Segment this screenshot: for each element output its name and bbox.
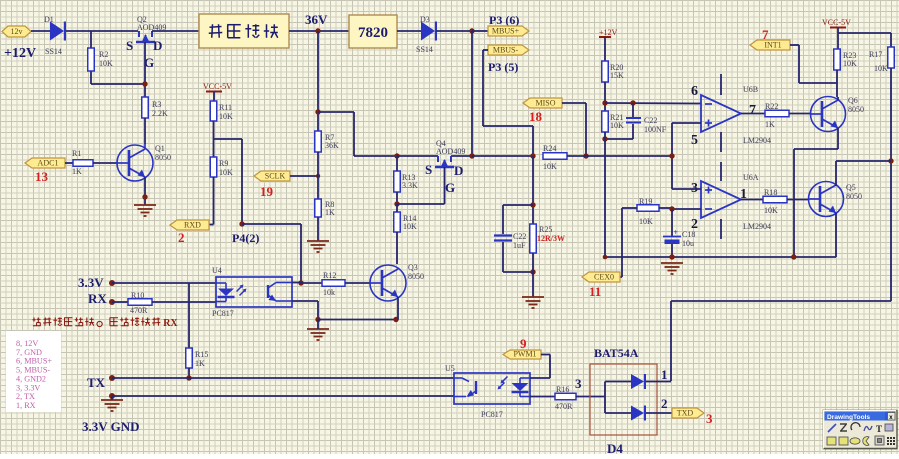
wire VCC to R17 [838,33,891,47]
transistor Q3 8050 [370,263,424,301]
svg-text:470R: 470R [555,402,573,411]
svg-text:+: + [674,228,679,237]
svg-text:TXD: TXD [677,409,694,418]
junction input node [669,153,674,158]
junction U4 collector node [298,280,303,285]
wire U6A pin3 [672,188,701,190]
svg-text:6: 6 [691,84,698,99]
power VCC-5V top right [822,18,851,49]
wire Q5 collector [836,161,891,186]
wire U6A out to R18 [741,199,763,201]
svg-text:19: 19 [260,184,274,199]
node RX [109,299,115,305]
wire 36V rail down [317,31,319,131]
junction R21 bottom [602,136,607,141]
svg-text:5: 5 [691,133,698,148]
svg-text:G: G [445,180,455,195]
junction Q4 drain node [469,153,474,158]
svg-text:U4: U4 [212,266,222,275]
junction 36V node [315,28,320,33]
junction R13 bottom [394,201,399,206]
transistor Q5 8050 [808,182,862,217]
junction R24 left [530,153,535,158]
junction R24 right [583,153,588,158]
svg-text:3, 3.3V: 3, 3.3V [16,383,40,392]
svg-text:18: 18 [529,109,543,124]
wire MBUS+ node down to Q4 drain [471,31,473,156]
svg-text:Q3: Q3 [408,263,418,272]
svg-text:D1: D1 [44,15,54,24]
diode D3 SS14 [416,15,436,54]
wire C22 top lead [632,103,634,117]
junction C22 100NF top [630,100,635,105]
wire rail to gnd bus [604,132,606,257]
resistor R12 10k [322,271,345,297]
label 3.3V [78,275,104,290]
svg-text:1, RX: 1, RX [16,401,36,410]
wire GND to U5 [112,395,454,397]
transistor Q1 8050 [117,144,171,181]
svg-text:1K: 1K [765,120,775,129]
wire RX to R10 [112,301,128,303]
svg-text:10K: 10K [764,206,778,215]
wire R14 to Q3 collector [396,204,398,264]
svg-text:MISO: MISO [535,99,555,108]
svg-text:3.3V: 3.3V [78,275,104,290]
label P3 (5) [488,60,518,74]
svg-text:S: S [425,162,432,177]
wire U6A pin2 [672,208,701,210]
svg-text:+12V: +12V [4,46,36,61]
block 7820 regulator [349,15,397,48]
svg-text:7: 7 [749,103,756,118]
svg-text:VCC-5V: VCC-5V [822,18,851,27]
svg-text:10u: 10u [682,239,694,248]
junction SCLK node [316,174,320,178]
junction R15 TX [186,375,191,380]
svg-text:7, GND: 7, GND [16,348,42,357]
svg-text:U5: U5 [445,364,455,373]
junction Q5 collector [888,158,893,163]
label P4(2) [232,231,259,245]
port INT1 [750,40,790,50]
svg-text:S: S [126,38,133,53]
wire D3 to MBUS+ [436,30,472,32]
svg-text:RX: RX [163,318,178,329]
svg-text:2.2K: 2.2K [152,109,168,118]
wire MBUS- down to R24 node [483,50,533,156]
resistor R23 10K [834,49,857,70]
svg-text:1K: 1K [195,359,205,368]
wire C18 to bus [671,244,673,257]
wire U6B pin5 [672,122,701,124]
wire U4 collector to R12 [292,282,322,285]
svg-text:DrawingTools: DrawingTools [827,414,870,421]
svg-text:T: T [876,424,882,434]
junction C22 top [530,202,535,207]
pin number 19 [260,184,274,199]
port 12v [2,26,31,37]
svg-text:10K: 10K [543,162,557,171]
wire R19 to CEX0 [620,208,637,277]
svg-text:3: 3 [706,411,713,426]
capacitor C22 100NF [626,116,667,134]
svg-text:TX: TX [87,375,106,390]
svg-text:R17: R17 [869,50,882,59]
resistor R7 36K [315,131,339,152]
capacitor C22 1uF [494,232,526,250]
wire R15 bottom [188,368,190,378]
svg-text:R1: R1 [72,149,81,158]
resistor R8 1K [315,199,335,217]
resistor R24 10K [543,144,567,171]
pin number 18 [529,109,543,124]
junction R13 top [394,153,399,158]
svg-text:D4: D4 [607,441,623,454]
svg-text:3.3K: 3.3K [402,181,418,190]
resistor R16 470R [555,385,576,411]
junction U4 emitter gnd [315,317,320,322]
ground Q1 [134,205,156,216]
svg-text:C22: C22 [513,232,526,241]
pin number 7 [762,27,769,42]
text master-slave note [32,317,178,329]
svg-text:RX: RX [88,291,107,306]
wire R25 to ground [532,253,534,297]
optocoupler U5 PC817 [445,364,530,419]
svg-text:10K: 10K [874,64,888,73]
wire R11 to R9 [213,121,215,157]
diode D1 SS14 [44,15,65,56]
pin number 2 [178,230,185,245]
resistor R9 10K [210,157,233,177]
junction P4(2) node [239,221,244,226]
wire Q1 emitter to ground [144,177,146,205]
svg-text:ADC1: ADC1 [38,159,59,168]
wire Q5 emitter to bus [835,213,837,257]
svg-text:1: 1 [661,367,668,382]
svg-text:U6A: U6A [743,173,759,182]
resistor R22 1K [765,102,789,129]
svg-text:Q1: Q1 [155,144,165,153]
resistor R1 1K [72,149,93,176]
label P3 (6) [489,13,519,27]
svg-text:10K: 10K [219,112,233,121]
window DrawingTools toolbar [823,410,898,449]
wire C22 bottom lead [605,124,633,139]
svg-text:10K: 10K [219,168,233,177]
wire R12 to Q3 base [345,282,370,284]
wire input node vertical [671,123,673,189]
svg-text:INT1: INT1 [764,41,781,50]
svg-text:4, GND2: 4, GND2 [16,374,46,383]
resistor R13 3.3K [394,171,418,192]
svg-text:12v: 12v [11,27,23,36]
text pin list legend [6,331,61,412]
op-amp U6B LM2904 [691,74,771,152]
transistor Q6 8050 [810,96,864,132]
junction R25 bottom [530,269,535,274]
svg-text:36V: 36V [305,12,328,27]
resistor R25 12R/3W [530,224,565,253]
label TX [87,375,106,390]
wire TX to U5 [112,377,454,379]
svg-text:8050: 8050 [848,105,864,114]
wire ground bus [605,256,836,258]
node GND2 [109,393,115,399]
svg-text:AOD409: AOD409 [436,147,465,156]
svg-text:P3 (5): P3 (5) [488,60,518,74]
port SCLK [254,171,290,181]
resistor R19 10K [637,197,659,226]
wire gnd stub [111,396,113,400]
capacitor C18 10u electrolytic [663,209,695,248]
wire gnd to Q3 emitter [318,320,396,330]
label 36V [305,12,328,27]
svg-text:SCLK: SCLK [265,172,286,181]
svg-text:10K: 10K [403,222,417,231]
svg-text:15K: 15K [610,71,624,80]
wire R7 to R8 [317,152,319,199]
label RX [88,291,107,306]
port MISO [523,98,562,108]
wire R1 to Q1 base [93,162,117,164]
wire Q5 rail to BAT54A pin1 [671,301,891,381]
pin number 11 [589,284,601,299]
svg-text:R15: R15 [195,350,208,359]
svg-text:P4(2): P4(2) [232,231,259,245]
wire to MBUS+ port [472,30,488,32]
resistor R18 10K [763,188,787,215]
svg-text:R25: R25 [539,225,552,234]
junction bus left [603,255,608,260]
svg-text:SS14: SS14 [45,47,62,56]
svg-text:PC817: PC817 [481,410,503,419]
svg-text:8050: 8050 [155,153,171,162]
svg-text:10K: 10K [99,59,113,68]
wire down to R25 [532,156,534,224]
wire R20 to R21 [604,82,606,111]
svg-text:1uF: 1uF [513,241,526,250]
wire R16 to BAT54A pin3 [576,396,605,398]
wire R17 rail down [890,68,892,301]
wire R2 branch [91,31,145,84]
wire PWM1 to U5 [530,355,550,379]
wire MISO down [562,103,586,156]
svg-text:5, MBUS-: 5, MBUS- [16,366,50,375]
resistor R10 470R [128,291,152,315]
svg-text:10K: 10K [843,59,857,68]
svg-text:D: D [454,163,463,178]
junction C18 bus [669,254,674,259]
ground R25 [522,297,544,308]
svg-text:100NF: 100NF [644,125,667,134]
resistor R21 10K [602,111,624,132]
wire boost to 7820 [289,30,349,32]
wire R19 to pin2 node [659,207,672,209]
pin number 13 [35,169,49,184]
svg-text:C22: C22 [644,116,657,125]
wire R23 to Q6 collector [836,70,838,97]
wire R24 to comparator input [567,155,672,157]
svg-text:8050: 8050 [408,272,424,281]
svg-text:LM2904: LM2904 [743,222,771,231]
wire R15 top [188,283,190,348]
node TX [109,375,115,381]
wire Q2 drain to boost module [152,30,199,32]
svg-text:12R/3W: 12R/3W [537,234,565,243]
svg-text:2, TX: 2, TX [16,392,35,401]
port TXD [672,408,704,418]
power +12V rail [599,28,618,61]
power VCC-5V rail [203,82,232,101]
svg-text:D: D [153,38,162,53]
svg-text:R2: R2 [99,50,108,59]
svg-text:CEX0: CEX0 [594,273,614,282]
wire R3 to Q1 collector [144,118,146,144]
svg-text:36K: 36K [325,141,339,150]
junction R20/R21 [602,100,607,105]
block boost module [199,14,289,48]
svg-text:PWM1: PWM1 [513,350,536,359]
port ADC1 [25,158,65,168]
resistor R14 10K [394,212,417,232]
op-amp U6A LM2904 [691,162,771,239]
wire node to P4(2) branch [214,139,243,224]
label +12V [4,46,36,61]
svg-text:MBUS+: MBUS+ [492,27,520,36]
port MBUS+ [488,26,529,36]
svg-text:2: 2 [661,396,668,411]
optocoupler U4 PC817 [212,266,292,318]
svg-text:3: 3 [575,376,582,391]
label 3.3V GND [82,419,140,434]
wire to U6B pin6 [605,102,701,105]
wire U5 to R16 [530,396,555,398]
svg-text:C18: C18 [682,230,695,239]
node 3.3V [109,280,115,286]
port MBUS- [488,45,529,55]
wire INT1 to Q6 collector [790,45,837,83]
svg-text:1K: 1K [325,208,335,217]
svg-text:Q5: Q5 [846,183,856,192]
svg-text:LM2904: LM2904 [743,136,771,145]
junction Q6 emitter bus [791,254,796,259]
svg-text:8050: 8050 [846,192,862,201]
svg-text:470R: 470R [130,306,148,315]
svg-text:R9: R9 [219,159,228,168]
svg-text:BAT54A: BAT54A [594,346,639,360]
wire Q2 gate to R3 [144,42,146,98]
junction Q1 emitter [142,194,147,199]
svg-text:VCC-5V: VCC-5V [203,82,232,91]
svg-text:R12: R12 [323,271,336,280]
resistor R17 10K [869,47,894,73]
port PWM1 [503,350,541,359]
wire U6B out to R22 [741,113,765,115]
svg-text:6, MBUS+: 6, MBUS+ [16,357,52,366]
svg-text:10k: 10k [323,288,335,297]
resistor R11 10K [210,101,233,121]
wire ADC1 to R1 [65,162,73,164]
wire 12v to D1 to Q2 [31,30,138,32]
svg-text:RXD: RXD [184,221,201,230]
wire 3.3V to U4 [112,282,216,284]
ground C18 [661,263,683,274]
diode array D4 BAT54A [590,346,672,456]
svg-text:8, 12V: 8, 12V [16,339,38,348]
pin number 3 [706,411,713,426]
junction Q3 emitter [393,317,398,322]
svg-text:P3 (6): P3 (6) [489,13,519,27]
svg-text:Q6: Q6 [848,96,858,105]
wire R9 to RXD [209,177,214,225]
resistor R3 2.2K [142,97,168,118]
ground 3.3V GND [101,400,123,411]
svg-text:R11: R11 [219,103,232,112]
ground U4 [307,329,329,340]
resistor R20 15K [602,61,624,82]
svg-text:13: 13 [35,169,49,184]
svg-text:MBUS-: MBUS- [493,46,519,55]
svg-text:10K: 10K [610,121,624,130]
svg-text:U6B: U6B [743,85,758,94]
svg-text:11: 11 [589,284,601,299]
ground R8 [307,241,329,252]
wire Q4 drain to R24 [472,155,533,157]
wire Q3 emitter down [397,297,399,320]
junction MBUS+ node [469,28,474,33]
wire U4 emitter to ground [292,301,318,319]
wire R10 to U4 [152,301,216,303]
svg-text:10K: 10K [639,217,653,226]
svg-text:+12V: +12V [599,28,618,37]
wire P4(2) to U4 collector [242,224,301,283]
resistor R2 10K [88,48,113,71]
transistor Q2 AOD409 PMOS [126,15,166,70]
wire R22 to Q6 base [789,113,810,115]
junction pin2 node [669,206,674,211]
junction gate node [142,81,147,86]
wire Q6 emitter to bus [794,97,838,257]
resistor R15 1K [186,348,209,368]
svg-text:SS14: SS14 [416,45,433,54]
wire C22 1uF bottom [503,242,533,272]
wire tap to R13/Q4 [318,112,397,156]
wire SCLK to divider [290,175,318,177]
junction R7 tap [315,109,320,114]
svg-text:PC817: PC817 [212,309,234,318]
wire R18 to Q5 base [787,199,808,201]
svg-text:R24: R24 [543,144,556,153]
svg-text:2: 2 [178,230,185,245]
transistor Q4 AOD409 PMOS [397,139,472,204]
wire C22 1uF top [503,205,533,234]
pin number 9 [520,336,527,351]
wire R8 to ground [317,217,319,241]
wire 7820 to D3 [397,30,421,32]
port CEX0 [582,272,620,282]
svg-text:1K: 1K [72,167,82,176]
svg-text:R3: R3 [152,100,161,109]
port RXD [170,220,209,230]
wire R13 leads [396,156,398,204]
svg-text:3.3V GND: 3.3V GND [82,419,140,434]
pin number 3 navy [575,376,582,391]
svg-text:7820: 7820 [358,25,388,41]
